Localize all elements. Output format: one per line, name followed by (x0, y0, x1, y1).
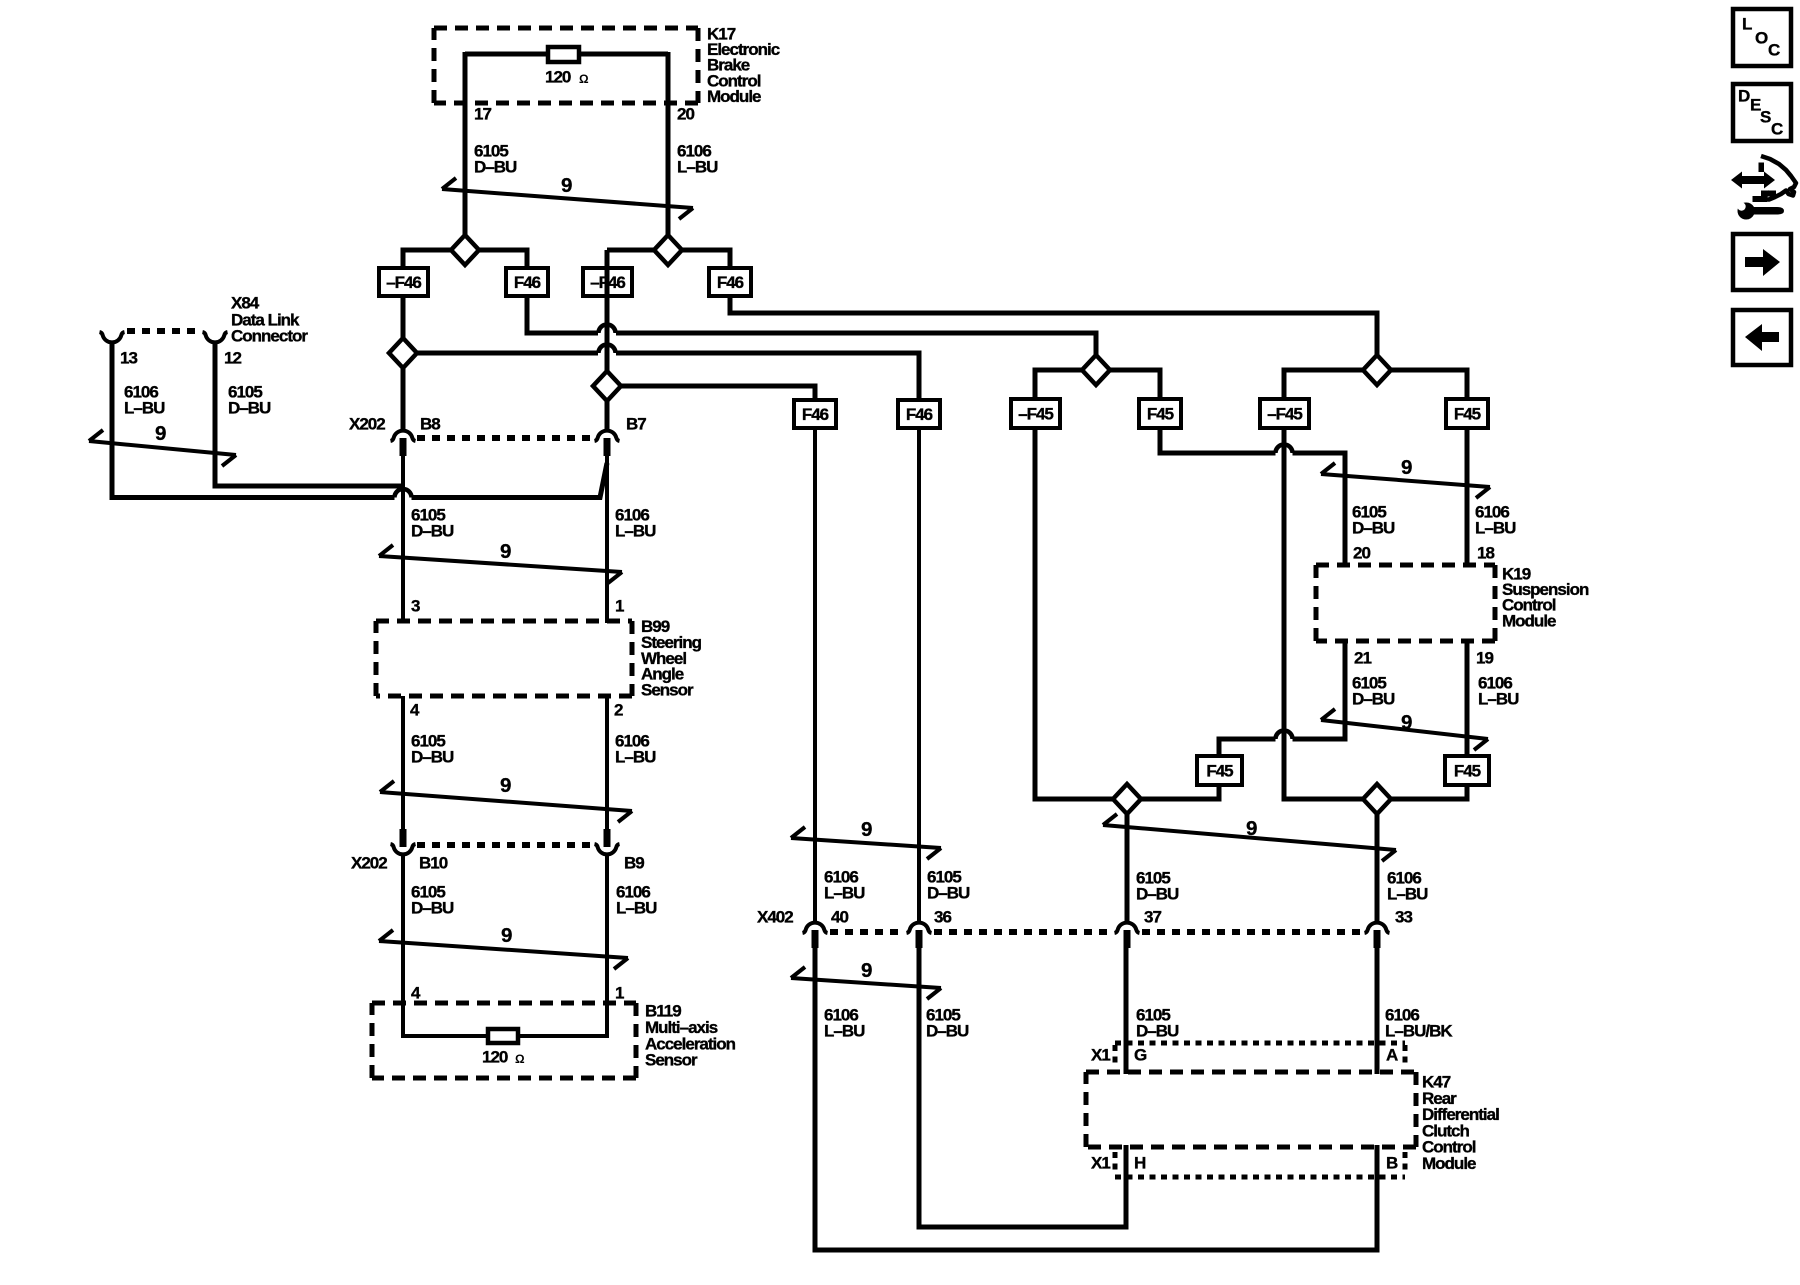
svg-text:Module: Module (707, 87, 761, 106)
svg-text:1: 1 (615, 984, 624, 1003)
svg-text:Sensor: Sensor (641, 681, 694, 700)
wire S5 to -F45 branch (1035, 370, 1082, 401)
wire K19 pin21 left-down to F45 row3-a (1293, 641, 1346, 739)
svg-text:12: 12 (224, 349, 241, 368)
splice diamond S1 (6105) (451, 235, 479, 265)
connector X202 pin B10 (391, 844, 416, 854)
svg-text:Sensor: Sensor (645, 1051, 698, 1070)
svg-text:9: 9 (1401, 711, 1412, 734)
wire B7 down to B99 pin1 (605, 450, 609, 623)
svg-text:B: B (1386, 1154, 1398, 1173)
connector X402 pin 37 (1115, 923, 1140, 933)
svg-text:D–BU: D–BU (411, 748, 454, 767)
wire X402 pin37 down to K47 pin G (1124, 944, 1129, 1074)
svg-text:36: 36 (934, 908, 951, 927)
wire hop (1276, 731, 1293, 740)
svg-text:D–BU: D–BU (411, 899, 454, 918)
connector box F45 (row b) (1139, 399, 1181, 428)
connector box F45 (row3 b) (1445, 756, 1489, 785)
svg-text:X1: X1 (1091, 1046, 1110, 1065)
svg-text:L–BU: L–BU (1475, 519, 1516, 538)
svg-text:–F46: –F46 (590, 273, 625, 292)
svg-text:D–BU: D–BU (927, 884, 970, 903)
connector X84 pin 12 (cup) (203, 332, 228, 342)
svg-text:13: 13 (120, 349, 137, 368)
wire B99 pin2 down (605, 696, 609, 830)
wire S3 down to X202 B8 (401, 366, 406, 430)
wire S5 to F45 branch (1110, 370, 1160, 401)
svg-text:9: 9 (561, 174, 572, 197)
module K17 Electronic Brake Control Module (dashed box) (434, 28, 698, 103)
wire K19 pin19 down to F45 row3-b (1465, 641, 1470, 758)
svg-text:L–BU: L–BU (1387, 885, 1428, 904)
wire S1 to F46 branch (479, 250, 527, 270)
module B99 Steering Wheel Angle Sensor (dashed box) (376, 621, 632, 696)
wire hop (1276, 445, 1293, 454)
connector box -F45 (row c) (1260, 399, 1309, 428)
splice diamond S8 (6106) (1363, 784, 1391, 814)
svg-text:Connector: Connector (231, 327, 308, 346)
wire F45b down-right to K19 pin20 (1160, 428, 1276, 453)
twisted-pair symbol (above X402 right) (1103, 814, 1396, 861)
svg-text:L–BU/BK: L–BU/BK (1385, 1022, 1453, 1041)
svg-text:19: 19 (1476, 649, 1493, 668)
connector box F46 (row1 d) (709, 268, 751, 296)
wire -F45c down to splice S8 (1284, 428, 1363, 799)
svg-text:2: 2 (614, 701, 623, 720)
svg-text:A: A (1386, 1046, 1398, 1065)
svg-text:9: 9 (155, 422, 166, 445)
wire B119 pin4 to resistor (403, 1003, 488, 1036)
svg-text:Ω: Ω (515, 1052, 525, 1066)
svg-text:C: C (1768, 41, 1780, 60)
twisted-pair symbol (above B99) (379, 545, 622, 583)
svg-text:21: 21 (1354, 649, 1371, 668)
svg-text:–F45: –F45 (1267, 405, 1302, 424)
module K19 Suspension Control Module (dashed box) (1316, 565, 1495, 641)
svg-text:B10: B10 (419, 854, 448, 873)
icon forward-arrow box (1733, 234, 1791, 290)
svg-text:Module: Module (1502, 611, 1556, 630)
wire hop (599, 325, 616, 334)
svg-text:120: 120 (482, 1048, 508, 1067)
icon back-arrow box (1733, 310, 1791, 365)
connector X84 pin 13 (cup) (100, 332, 125, 342)
wire F45 row3-a to splice S7 (1141, 785, 1219, 799)
svg-text:D–BU: D–BU (1352, 690, 1395, 709)
svg-text:9: 9 (501, 924, 512, 947)
svg-text:L–BU: L–BU (677, 158, 718, 177)
svg-text:F46: F46 (906, 405, 933, 424)
connector X402 body (dashed) segment 3 (1142, 929, 1362, 935)
svg-text:D–BU: D–BU (474, 158, 517, 177)
wire X402 pin33 down to K47 pin A (1375, 944, 1380, 1074)
twisted-pair symbol (K17 harness) (442, 178, 693, 219)
twisted-pair symbol (below X402 left) (791, 967, 941, 999)
svg-text:120: 120 (545, 68, 571, 87)
svg-text:G: G (1134, 1046, 1147, 1065)
wire S4 down to X202 B7 (605, 399, 610, 430)
svg-text:L–BU: L–BU (824, 1022, 865, 1041)
svg-text:D–BU: D–BU (228, 399, 271, 418)
svg-text:X1: X1 (1091, 1154, 1110, 1173)
connector box -F45 (row a) (1011, 399, 1060, 428)
svg-text:B8: B8 (420, 415, 440, 434)
connector box F46 (row1 b) (506, 268, 548, 296)
wire X84 pin13 to B7 net (112, 343, 395, 498)
svg-text:O: O (1755, 29, 1768, 48)
wire B10 down to B119 pin4 (401, 854, 405, 1003)
wire K17 resistor leads (465, 52, 548, 57)
svg-text:L–BU: L–BU (615, 522, 656, 541)
wire F46 row2-a down to X402 pin40 (813, 428, 817, 922)
connector box F46 (row2 b) (898, 400, 940, 428)
svg-text:B7: B7 (626, 415, 646, 434)
connector X402 body (dashed) segment 1 (830, 929, 904, 935)
svg-text:9: 9 (1401, 456, 1412, 479)
wire B8 down to B99 pin3 (401, 450, 405, 623)
svg-text:20: 20 (677, 105, 694, 124)
connector X402 pin 36 (907, 923, 932, 933)
svg-text:9: 9 (861, 959, 872, 982)
wire S2 to F46 branch (682, 250, 730, 270)
svg-text:D: D (1738, 87, 1750, 106)
svg-text:X402: X402 (757, 908, 793, 927)
splice diamond S4 (6106 L-BU) (593, 371, 621, 401)
wire F46d down then right to splice S6 (730, 296, 1377, 357)
wire F45d down to K19 pin18 (1465, 428, 1470, 567)
wire K17 pin 17 down (463, 52, 468, 236)
wire K47 pin B loop to X402 pin40 (815, 944, 1377, 1250)
wire B9 down to B119 pin1 (605, 854, 609, 1003)
svg-text:F46: F46 (802, 405, 829, 424)
svg-text:3: 3 (411, 597, 420, 616)
connector box F45 (row d) (1446, 399, 1488, 428)
wire K17 pin 20 down (666, 52, 671, 236)
svg-text:17: 17 (474, 105, 491, 124)
svg-text:X202: X202 (351, 854, 387, 873)
wire hop (395, 489, 412, 498)
twisted-pair symbol (above X202 B10/B9) (380, 781, 632, 822)
svg-text:L–BU: L–BU (124, 399, 165, 418)
wire F46b down then right to splice S5 (527, 296, 598, 333)
splice diamond S2 (6106) (654, 235, 682, 265)
twisted-pair symbol (below K19) (1321, 709, 1488, 750)
connector X84 body (dashed) (127, 328, 198, 334)
twisted-pair symbol (above X402 left) (791, 827, 941, 859)
wire hop (599, 345, 616, 354)
svg-text:D–BU: D–BU (1136, 885, 1179, 904)
wire B119 pin1 to resistor (518, 1003, 607, 1036)
svg-text:–F46: –F46 (386, 273, 421, 292)
wire S4 right to F46 row2-a (621, 386, 815, 402)
svg-text:H: H (1134, 1154, 1146, 1173)
splice diamond S6 (1363, 355, 1391, 385)
svg-text:F45: F45 (1454, 405, 1481, 424)
connector box -F46 (row1 c) (583, 268, 632, 296)
wire K47 pin H loop to X402 pin36 (919, 944, 1126, 1227)
svg-text:1: 1 (615, 597, 624, 616)
splice diamond S7 (6105) (1113, 784, 1141, 814)
svg-text:C: C (1771, 120, 1783, 139)
svg-text:X202: X202 (349, 415, 385, 434)
svg-text:F45: F45 (1206, 762, 1233, 781)
icon swap-arrow + wrench (1731, 156, 1796, 220)
svg-text:F46: F46 (717, 273, 744, 292)
resistor 120 ohm (inside K17) (548, 47, 579, 62)
wire S6 to F45 branch (1391, 370, 1467, 401)
svg-text:F46: F46 (514, 273, 541, 292)
svg-text:9: 9 (500, 540, 511, 563)
wire S6 to -F45 branch (1284, 370, 1363, 401)
wire S3 right to F46 row2-b (417, 351, 598, 356)
splice diamond S3 (6105 D-BU) (389, 338, 417, 368)
splice diamond S5 (1082, 355, 1110, 385)
svg-text:9: 9 (861, 818, 872, 841)
svg-text:L–BU: L–BU (824, 884, 865, 903)
wire -F46a down to splice S3 (401, 296, 406, 340)
wire S7 down to X402 pin37 (1125, 813, 1130, 922)
svg-text:F45: F45 (1454, 762, 1481, 781)
svg-text:B9: B9 (624, 854, 644, 873)
connector X402 body (dashed) segment 2 (934, 929, 1112, 935)
wire F46 row2-b down to X402 pin36 (917, 428, 921, 922)
svg-text:–F45: –F45 (1018, 405, 1053, 424)
wire -F45a down to splice S7 (1035, 428, 1113, 799)
svg-text:18: 18 (1477, 544, 1494, 563)
svg-text:L–BU: L–BU (1478, 690, 1519, 709)
wire B99 pin4 down (401, 696, 405, 830)
connector X202 body lower (dashed) (417, 842, 593, 848)
wire S8 down to X402 pin33 (1375, 813, 1380, 922)
svg-text:9: 9 (500, 774, 511, 797)
connector X202 pin B8 (391, 431, 416, 441)
wire F45 row3-b to splice S8 (1391, 785, 1467, 799)
twisted-pair symbol (above K19) (1321, 463, 1490, 498)
svg-text:Module: Module (1422, 1154, 1476, 1173)
svg-text:D–BU: D–BU (1352, 519, 1395, 538)
svg-text:L–BU: L–BU (615, 748, 656, 767)
connector box F45 (row3 a) (1197, 756, 1242, 785)
svg-text:9: 9 (1246, 817, 1257, 840)
connector X202 pin B7 (595, 431, 620, 441)
icon DESC box (1733, 84, 1791, 141)
wire S2 to -F46 branch (continues through box) (607, 248, 654, 253)
wire S1 to -F46 branch (403, 250, 451, 270)
svg-text:L: L (1742, 15, 1752, 34)
icon LOC box (1733, 9, 1791, 66)
svg-text:D–BU: D–BU (926, 1022, 969, 1041)
twisted-pair symbol (X84) (89, 430, 236, 466)
connector box F46 (row2 a) (794, 400, 836, 428)
connector X402 pin 40 (803, 923, 828, 933)
svg-text:37: 37 (1144, 908, 1161, 927)
module B119 Multi-axis Acceleration Sensor (dashed box) (372, 1003, 636, 1078)
connector X402 pin 33 (1365, 923, 1390, 933)
wire (cont) to S5 after hop (616, 333, 1096, 357)
svg-text:40: 40 (831, 908, 848, 927)
svg-text:S: S (1760, 108, 1771, 127)
module K47 Rear Differential Clutch Control Module (dashed box) (1086, 1072, 1416, 1147)
connector X202 pin B9 (595, 844, 620, 854)
resistor 120 ohm (inside B119) (488, 1029, 518, 1043)
wire X84 pin12 to B8 net (215, 343, 403, 486)
svg-text:33: 33 (1395, 908, 1412, 927)
connector K47 X1 bracket (bottom, dotted) (1115, 1175, 1405, 1180)
twisted-pair symbol (above B119) (379, 930, 628, 969)
svg-text:F45: F45 (1147, 405, 1174, 424)
svg-text:Ω: Ω (579, 72, 589, 86)
connector box -F46 (row1 a) (379, 268, 428, 296)
svg-text:D–BU: D–BU (1136, 1022, 1179, 1041)
svg-text:D–BU: D–BU (411, 522, 454, 541)
svg-text:L–BU: L–BU (616, 899, 657, 918)
connector K47 X1 bracket (top, dotted) (1115, 1041, 1405, 1046)
connector X202 body (dashed) (417, 435, 593, 441)
svg-text:20: 20 (1353, 544, 1370, 563)
